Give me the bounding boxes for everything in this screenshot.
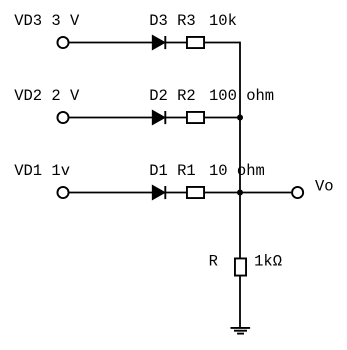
svg-text:R: R	[209, 252, 218, 270]
junction node at R2/bus	[237, 115, 243, 121]
svg-text:10k: 10k	[209, 12, 237, 30]
wire R2 to bus	[204, 117, 240, 119]
wire R1 to bus	[204, 192, 240, 194]
junction node at R1/bus	[237, 190, 243, 196]
svg-text:VD3 3 V: VD3 3 V	[14, 12, 80, 30]
diode D1	[153, 186, 166, 199]
wire D1 cathode to R1	[165, 192, 187, 194]
svg-text:D1 R1: D1 R1	[149, 162, 196, 180]
wire R3 to bus	[204, 42, 240, 44]
svg-text:VD1 1v: VD1 1v	[14, 162, 70, 180]
terminal node VD3	[57, 37, 68, 48]
svg-text:10 ohm: 10 ohm	[209, 162, 265, 180]
wire bus to Vo terminal	[240, 192, 291, 194]
wire VD1 terminal to D1 anode	[69, 192, 153, 194]
wire R to ground	[239, 277, 241, 329]
wire VD3 terminal to D3 anode	[69, 42, 153, 44]
svg-text:Vo: Vo	[315, 177, 334, 195]
wire VD2 terminal to D2 anode	[69, 117, 153, 119]
bus wire (vertical net)	[239, 42, 241, 258]
diode D2	[153, 111, 166, 124]
svg-text:D3 R3: D3 R3	[149, 12, 196, 30]
resistor R2	[187, 112, 204, 123]
svg-text:D2 R2: D2 R2	[149, 87, 196, 105]
wire D2 cathode to R2	[165, 117, 187, 119]
diode D3	[153, 36, 166, 49]
terminal node VD2	[57, 112, 68, 123]
wire D3 cathode to R3	[165, 42, 187, 44]
svg-text:100 ohm: 100 ohm	[209, 87, 274, 105]
ground	[231, 328, 251, 334]
resistor R1	[187, 187, 204, 198]
terminal node Vo	[292, 187, 303, 198]
resistor R	[235, 258, 246, 275]
svg-text:1kΩ: 1kΩ	[254, 252, 282, 270]
svg-text:VD2 2 V: VD2 2 V	[14, 87, 80, 105]
resistor R3	[187, 37, 204, 48]
terminal node VD1	[57, 187, 68, 198]
